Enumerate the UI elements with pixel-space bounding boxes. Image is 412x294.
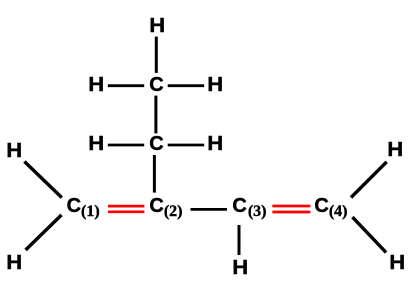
wire: horizontal bond C-b to H (right) <box>168 144 205 147</box>
atom H far-left lower <box>6 253 22 273</box>
atom H row1 right <box>207 75 223 95</box>
atom H top <box>149 16 165 36</box>
wire: diagonal bond C4 to H upper-right <box>351 162 387 198</box>
wire: diagonal bond C4 to H lower-right <box>352 217 386 252</box>
atom C1 with subscript (1) <box>67 196 100 216</box>
atom H row2 left <box>89 134 105 154</box>
wire: vertical bond H-top to C-a <box>155 37 158 73</box>
atom C2 with subscript (2) <box>149 196 182 216</box>
atom C3 with subscript (3) <box>232 196 266 216</box>
atom C row1 (CH2 of ethyl) <box>149 75 163 95</box>
atom H upper-right <box>387 140 403 160</box>
atom H far-left upper <box>6 141 22 161</box>
wire: diagonal bond H upper-left to C1 <box>24 162 61 198</box>
wire: horizontal bond H to C-a (left) <box>108 84 144 87</box>
double bond C3=C4 (red) upper line <box>272 205 310 208</box>
atom H row1 left <box>89 75 105 95</box>
atom H below C3 <box>232 258 248 278</box>
atom H row2 right <box>207 134 223 154</box>
double bond C1=C2 (red) lower line <box>108 210 144 213</box>
wire: vertical bond C3 to H below <box>238 225 241 255</box>
wire: vertical bond C-a to C-b <box>154 96 157 134</box>
wire: diagonal bond H lower-left to C1 <box>26 215 62 250</box>
wire: horizontal bond C-a to H (right) <box>168 84 205 87</box>
wire: single bond C2 to C3 <box>191 208 228 211</box>
double bond C3=C4 (red) lower line <box>272 211 310 214</box>
atom H lower-right <box>390 253 406 273</box>
atom C row2 (CH2 of ethyl) <box>149 134 163 154</box>
atom C4 with subscript (4) <box>314 196 347 216</box>
double bond C1=C2 (red) upper line <box>108 205 144 208</box>
wire: horizontal bond H to C-b (left) <box>108 144 144 147</box>
wire: vertical bond C-b to C2 <box>153 155 156 193</box>
